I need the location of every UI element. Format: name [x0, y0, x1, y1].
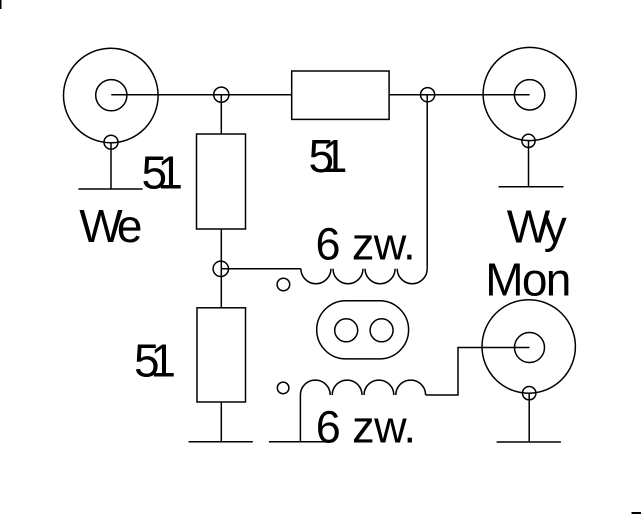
svg-text:Wy: Wy	[507, 200, 567, 252]
ground We	[78, 188, 142, 190]
connector Mon outer	[482, 300, 575, 393]
resistor R3 51	[197, 308, 246, 402]
svg-text:51: 51	[134, 335, 176, 387]
node B junction	[421, 88, 435, 102]
wire node2 down to winding L1	[426, 95, 428, 269]
wire R3 to ground	[220, 402, 222, 442]
svg-text:6 zw.: 6 zw.	[316, 219, 416, 270]
wire Mon shield to ground	[528, 393, 530, 442]
polarity dot L2	[277, 382, 289, 394]
node A junction	[214, 87, 229, 102]
svg-text:Mon: Mon	[485, 254, 571, 306]
node C junction	[213, 261, 228, 276]
inductor L1 6 zw.	[301, 269, 427, 284]
svg-text:We: We	[79, 200, 142, 252]
connector Mon pin	[515, 333, 545, 363]
connector We pin	[96, 80, 127, 111]
transformer core	[317, 301, 409, 359]
wire R1 to Wy pin	[389, 94, 529, 96]
resistor R2 51	[197, 134, 246, 229]
connector We shield	[104, 135, 118, 149]
core hole 1	[335, 319, 358, 342]
wire L2 right end to riser	[426, 348, 530, 396]
ground R3	[189, 441, 253, 443]
svg-text:51: 51	[309, 130, 348, 182]
connector Wy pin	[514, 80, 544, 110]
resistor R1 51	[292, 71, 389, 119]
wire Wy shield to ground	[528, 141, 530, 187]
wire R2 to node3	[220, 229, 222, 269]
wire We shield to ground	[110, 142, 112, 189]
wire top bus We to R1	[111, 94, 291, 96]
connector Wy outer	[483, 47, 576, 140]
ground L2	[269, 441, 333, 443]
svg-text:6 zw.: 6 zw.	[316, 401, 416, 452]
scan artifact top-left	[0, 0, 2, 9]
connector We outer	[64, 48, 159, 143]
wire node3 down to R3	[220, 269, 222, 308]
ground Mon	[497, 441, 561, 443]
scan artifact bottom-right	[632, 512, 641, 514]
svg-text:51: 51	[142, 147, 184, 199]
inductor L2 6 zw.	[300, 380, 425, 395]
wire node1 down to R2	[220, 95, 222, 134]
core hole 2	[370, 319, 393, 342]
wire node3 to winding L1	[221, 268, 301, 270]
polarity dot L1	[277, 278, 290, 291]
wire L2 left end to ground	[299, 395, 301, 442]
connector Mon shield	[523, 387, 536, 400]
ground Wy	[499, 186, 564, 188]
connector Wy shield	[522, 134, 535, 147]
